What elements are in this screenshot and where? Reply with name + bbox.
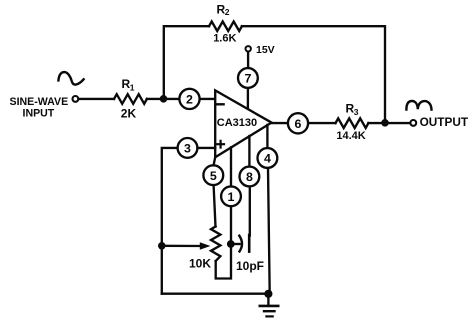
- supply terminal 15V: [246, 46, 251, 51]
- svg-text:2: 2: [186, 93, 193, 107]
- wire pin 4 down to ground rail: [268, 168, 270, 294]
- node junction input/feedback: [160, 96, 167, 103]
- resistor R1: [114, 94, 147, 104]
- node junction left rail / wiper: [159, 243, 166, 250]
- svg-text:INPUT: INPUT: [23, 107, 55, 119]
- svg-text:SINE-WAVE: SINE-WAVE: [10, 96, 69, 108]
- svg-text:2K: 2K: [121, 107, 137, 121]
- svg-text:7: 7: [244, 72, 251, 86]
- wire R3 to output terminal: [368, 122, 410, 124]
- wire op-amp bottom edge to pin 8: [248, 136, 250, 166]
- svg-text:1: 1: [130, 83, 135, 93]
- svg-text:3: 3: [354, 107, 359, 117]
- wire pin 5 to potentiometer: [214, 185, 216, 226]
- input sine waveform symbol: [58, 72, 83, 85]
- label SINE-WAVE INPUT: [10, 96, 69, 120]
- svg-text:14.4K: 14.4K: [336, 130, 365, 142]
- pin 2: [179, 89, 199, 109]
- resistor R2: [209, 22, 242, 32]
- node junction feedback / output: [382, 120, 389, 127]
- wire R1 to pin 2: [147, 98, 179, 100]
- svg-text:3: 3: [184, 142, 191, 156]
- wire 15V to pin 7: [247, 52, 249, 68]
- wire feedback top to right vertical: [242, 26, 385, 123]
- svg-text:15V: 15V: [256, 44, 275, 56]
- resistor R3: [336, 118, 369, 128]
- svg-text:4: 4: [264, 152, 271, 166]
- input terminal: [73, 96, 79, 102]
- output terminal: [410, 120, 416, 126]
- svg-text:6: 6: [295, 117, 302, 131]
- pin 4: [258, 148, 278, 168]
- wire input terminal to R1: [79, 98, 114, 100]
- svg-text:CA3130: CA3130: [217, 117, 257, 129]
- svg-text:1: 1: [228, 190, 235, 204]
- wire op-amp output to pin 6: [272, 122, 288, 124]
- wire op-amp corner to pin 5: [214, 157, 216, 165]
- svg-text:OUTPUT: OUTPUT: [420, 115, 469, 129]
- svg-text:1.6K: 1.6K: [213, 32, 236, 44]
- capacitor C1 10pF: [231, 243, 240, 245]
- wire pin 3 left and down: [162, 148, 177, 294]
- svg-text:2: 2: [225, 7, 230, 17]
- wire bottom ground rail: [162, 293, 269, 295]
- pin 1: [221, 186, 241, 206]
- wiper arrow to potentiometer: [162, 245, 201, 248]
- potentiometer R4 10K: [211, 227, 220, 262]
- node junction ground: [265, 290, 272, 297]
- wire pin 7 to op-amp top edge: [247, 88, 249, 109]
- ground: [267, 294, 269, 305]
- wire pin 8 down to capacitor: [249, 187, 251, 236]
- pin 6: [288, 113, 308, 133]
- pin 5: [203, 165, 223, 185]
- node junction pin1 wire / capacitor: [227, 241, 234, 248]
- svg-text:10K: 10K: [189, 257, 211, 271]
- svg-text:5: 5: [210, 169, 217, 183]
- wire pin 6 to R3: [309, 122, 336, 124]
- svg-text:10pF: 10pF: [236, 259, 264, 273]
- pin 8: [240, 167, 260, 187]
- svg-text:8: 8: [246, 170, 253, 184]
- op-amp U1 CA3130: [215, 90, 271, 157]
- wire op-amp bottom edge to pin 4: [266, 125, 268, 148]
- wire feedback left vertical: [164, 26, 209, 99]
- wire pin 2 to op-amp: [200, 98, 215, 100]
- pin 7: [238, 68, 258, 88]
- output waveform symbol: [406, 101, 431, 110]
- wire pin 1 down to pot bottom: [216, 207, 231, 279]
- pin 3: [178, 138, 198, 158]
- wire pin 3 to op-amp: [198, 147, 215, 149]
- wire op-amp bottom edge to pin 1: [230, 147, 232, 186]
